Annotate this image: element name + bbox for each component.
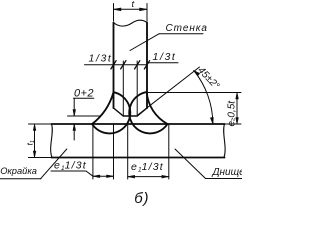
svg-text:0+2: 0+2 <box>74 88 94 100</box>
t dimension left extension line <box>113 4 115 22</box>
tick at right root edge <box>135 61 140 69</box>
e1 left dim right arrowhead <box>107 175 114 178</box>
t1 top arrowhead <box>33 124 36 131</box>
wall right face <box>146 23 148 109</box>
e1 right dimension line <box>128 176 169 178</box>
e1 left label underline <box>51 171 93 176</box>
1/3t root edge extension line left <box>122 61 124 116</box>
plate top surface thin right extension <box>225 123 242 125</box>
plate t1 bottom extension line <box>29 157 52 159</box>
Стенка leader line <box>130 34 159 51</box>
bottom extension line at right weld toe <box>168 125 170 180</box>
plate right break line <box>224 124 226 158</box>
Окрайка leader line <box>41 149 67 179</box>
wall left bevel <box>114 108 148 116</box>
plate (Днище) top surface <box>52 123 225 125</box>
plate bottom surface <box>52 157 225 159</box>
svg-text:Стенка: Стенка <box>166 23 208 34</box>
svg-text:1/3t: 1/3t <box>153 51 177 63</box>
wall left face <box>113 23 115 109</box>
0+2 lower arrowhead <box>73 124 76 131</box>
bottom extension line at left weld toe <box>92 125 94 180</box>
svg-text:б): б) <box>134 190 149 207</box>
1/3t right label shelf <box>147 62 178 64</box>
e1 left dim left arrowhead <box>93 175 100 178</box>
45 deg arc lower arrowhead <box>210 117 213 124</box>
1/3t root edge extension line right <box>136 61 138 116</box>
e1 left dimension line <box>93 175 114 177</box>
e 0,5t dimension line <box>236 93 238 125</box>
svg-text:t: t <box>132 0 135 10</box>
svg-text:1/3t: 1/3t <box>89 53 113 65</box>
Днище label underline <box>206 178 243 180</box>
t dimension right arrowhead <box>140 8 148 11</box>
e1 right dim left arrowhead <box>128 175 135 178</box>
0+2 upper arrowhead <box>73 110 76 117</box>
t1 bottom arrowhead <box>33 151 36 158</box>
e1 right dim right arrowhead <box>162 175 169 178</box>
45 deg arc upper arrowhead <box>194 71 200 76</box>
plate left break line <box>51 124 53 158</box>
weld top level extension line <box>147 92 241 94</box>
tick at wall left face <box>111 61 116 69</box>
svg-text:е11/3t: е11/3t <box>131 161 164 174</box>
wall root bottom extension line <box>68 115 101 117</box>
left weld nugget circle arc <box>92 92 130 133</box>
t1 dimension line <box>34 124 36 158</box>
right weld bead face arc <box>147 92 168 124</box>
svg-text:е11/3t: е11/3t <box>54 160 87 173</box>
left weld bead face arc <box>92 92 113 124</box>
t dimension right extension line <box>146 4 148 22</box>
1/3t dimension line <box>85 64 148 66</box>
Окрайка label underline <box>0 178 41 180</box>
plate t1 top extension line <box>29 123 52 125</box>
t dimension left arrowhead <box>114 8 122 11</box>
wall top break line <box>114 20 148 26</box>
tick at wall right face <box>144 61 149 69</box>
svg-text:Днище: Днище <box>212 167 243 178</box>
bottom extension line at root right <box>127 125 129 180</box>
t dimension line <box>114 8 148 10</box>
tick at left root edge <box>121 61 126 69</box>
0+2 label shelf <box>74 97 94 99</box>
Стенка label underline <box>159 33 203 35</box>
0+2 lower arrow line <box>73 124 75 140</box>
svg-text:Окрайка: Окрайка <box>0 166 37 176</box>
Днище leader line <box>175 149 206 179</box>
right weld nugget circle arc <box>129 92 167 133</box>
bottom extension line at wall left face <box>113 125 115 180</box>
e 0,5t top arrowhead <box>236 93 239 100</box>
svg-text:е≥0,5t: е≥0,5t <box>227 100 238 127</box>
45 deg bevel extension line <box>138 67 200 115</box>
e 0,5t bottom arrowhead <box>236 118 239 125</box>
0+2 upper arrow line <box>73 98 75 116</box>
45 deg dimension arc <box>194 71 213 125</box>
